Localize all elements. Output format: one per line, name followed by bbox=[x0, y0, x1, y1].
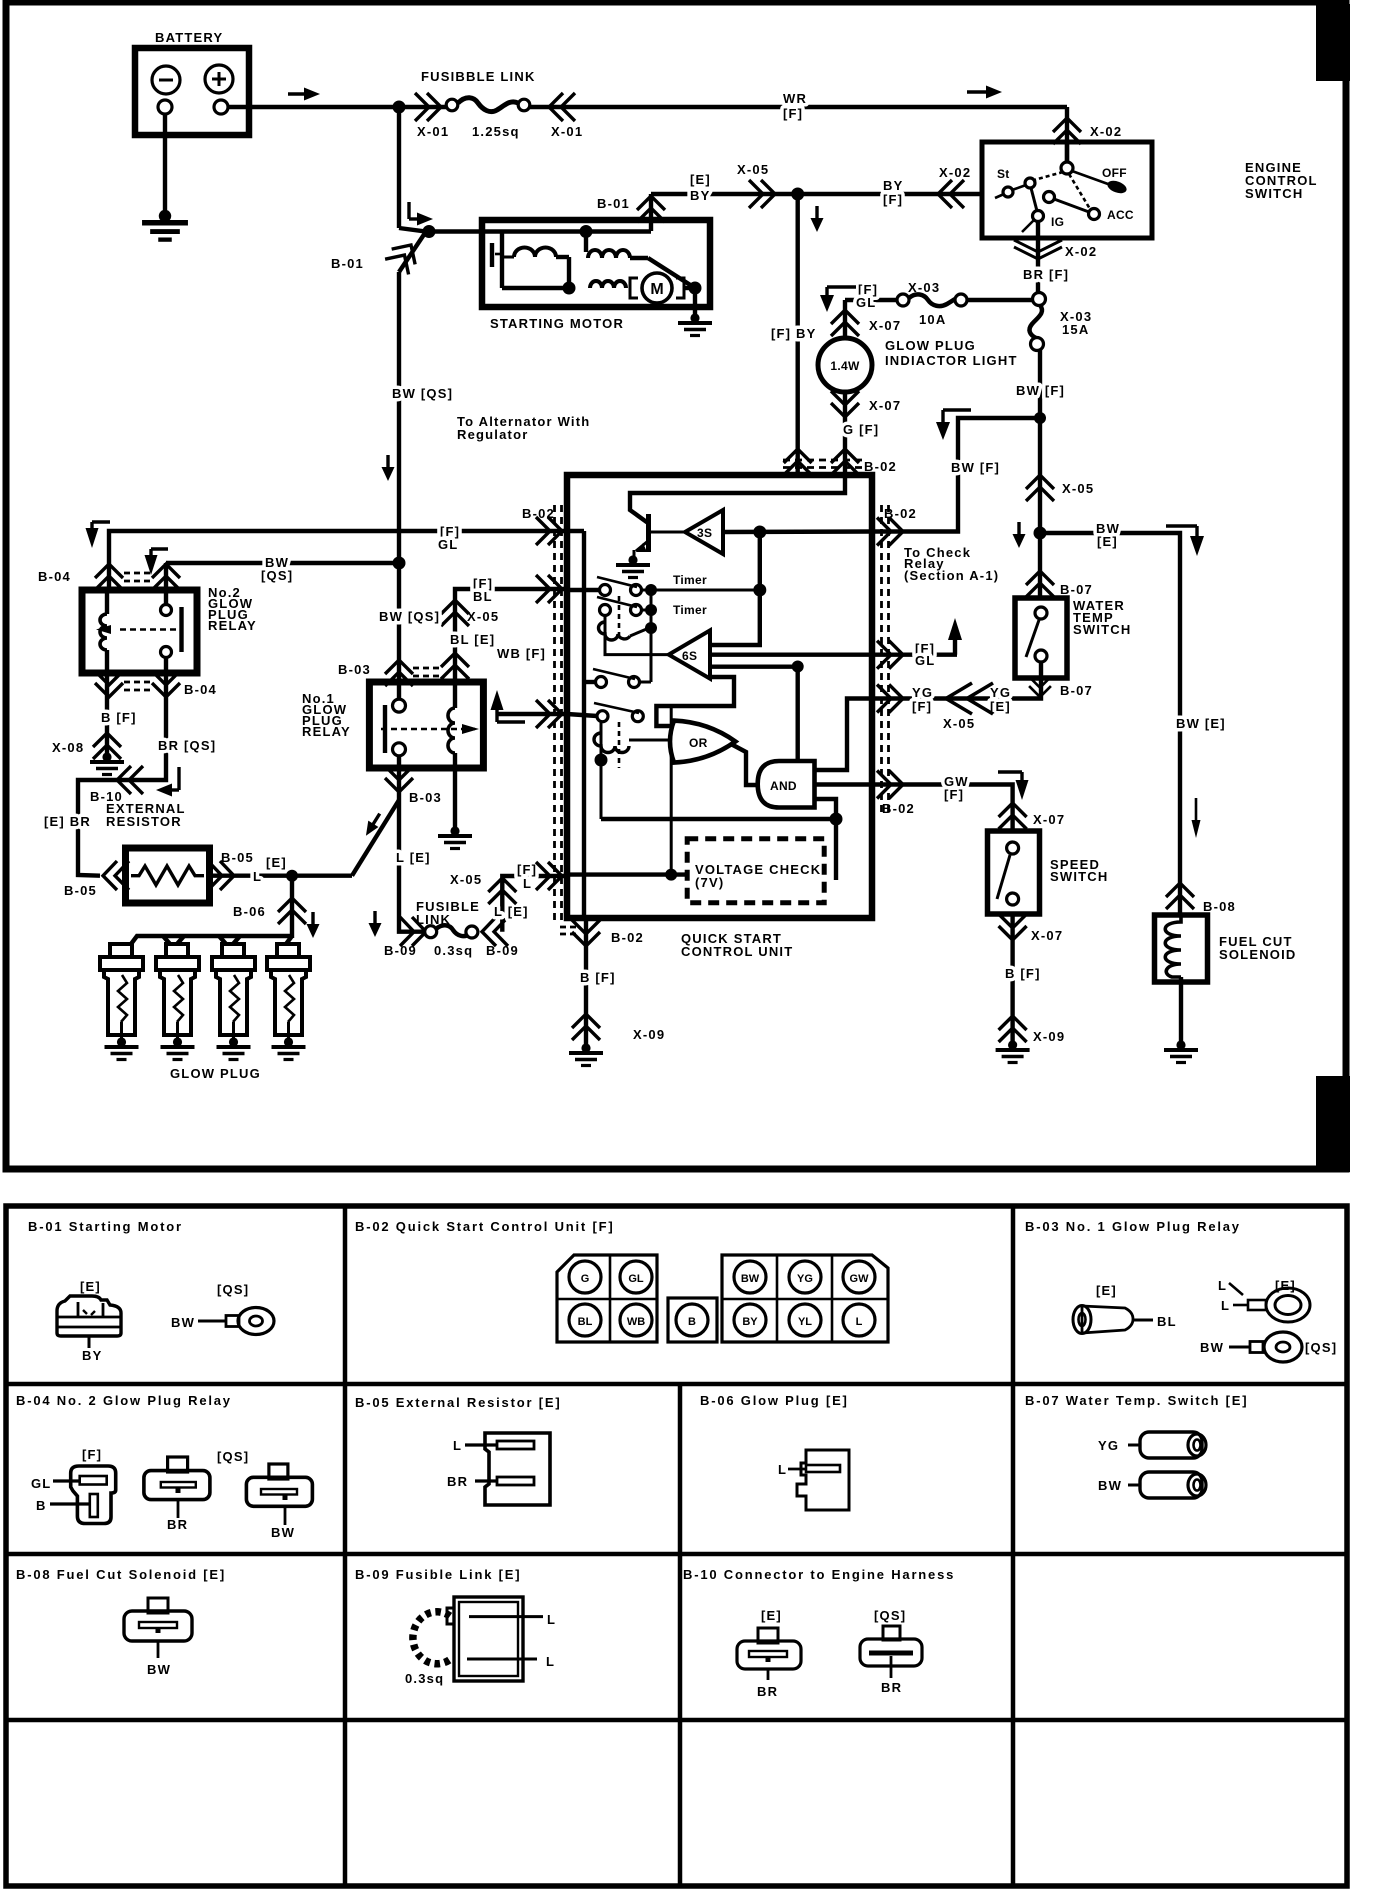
connector X-07 bbox=[831, 310, 859, 336]
svg-text:BW [F]: BW [F] bbox=[951, 460, 1000, 475]
svg-text:CONTROL UNIT: CONTROL UNIT bbox=[681, 944, 793, 959]
wire L [E] bbox=[209, 874, 352, 878]
wire 3S output bbox=[723, 529, 872, 534]
ground starting motor bbox=[678, 313, 712, 335]
svg-text:L [E]: L [E] bbox=[494, 904, 529, 919]
connector B-01 bbox=[385, 237, 423, 274]
wire inner left vertical bbox=[582, 531, 586, 918]
svg-text:SWITCH: SWITCH bbox=[1245, 186, 1303, 201]
B-10 connector [E] bbox=[737, 1608, 801, 1699]
svg-text:B-01: B-01 bbox=[597, 196, 630, 211]
connector X-05 bbox=[749, 180, 775, 208]
svg-text:G [F]: G [F] bbox=[843, 422, 879, 437]
svg-text:BR: BR bbox=[881, 1680, 902, 1695]
svg-text:L: L bbox=[546, 1654, 555, 1669]
B-07 terminal YG bbox=[1098, 1432, 1206, 1458]
fuse 10A bbox=[845, 280, 967, 327]
wire feedback vertical bbox=[712, 532, 760, 645]
svg-text:BW: BW bbox=[271, 1525, 295, 1540]
B-07 terminal BW bbox=[1098, 1472, 1206, 1498]
speed switch bbox=[988, 831, 1109, 914]
wire to ground bbox=[1179, 977, 1183, 1044]
svg-text:B-05 External Resistor [E]: B-05 External Resistor [E] bbox=[355, 1395, 561, 1410]
svg-text:B-04: B-04 bbox=[184, 682, 217, 697]
svg-text:L [E]: L [E] bbox=[396, 850, 431, 865]
wire GL output outside bbox=[872, 653, 957, 657]
flow arrow up bbox=[491, 690, 526, 722]
svg-text:B-03: B-03 bbox=[338, 662, 371, 677]
node BW [E] junction bbox=[1034, 527, 1047, 540]
contact OFF bbox=[1106, 178, 1129, 195]
svg-text:B-01 Starting Motor: B-01 Starting Motor bbox=[28, 1219, 183, 1234]
flow arrow left end bbox=[86, 522, 111, 548]
svg-text:L: L bbox=[547, 1612, 556, 1627]
fuel cut solenoid bbox=[1155, 915, 1297, 982]
svg-text:B-04 No. 2 Glow Plug Relay: B-04 No. 2 Glow Plug Relay bbox=[16, 1393, 232, 1408]
svg-text:B-07 Water Temp. Switch [E]: B-07 Water Temp. Switch [E] bbox=[1025, 1393, 1248, 1408]
wire junction down bbox=[1038, 533, 1042, 598]
contact St bbox=[1025, 178, 1035, 188]
svg-text:B [F]: B [F] bbox=[1005, 966, 1041, 981]
svg-text:X-05: X-05 bbox=[467, 609, 499, 624]
svg-text:B-02: B-02 bbox=[522, 506, 555, 521]
svg-text:B-01: B-01 bbox=[331, 256, 364, 271]
svg-text:X-02: X-02 bbox=[1065, 244, 1097, 259]
relay coil bbox=[453, 682, 457, 708]
svg-text:[E]: [E] bbox=[761, 1608, 782, 1623]
svg-text:BY: BY bbox=[690, 188, 710, 203]
wire B-01 up from motor bbox=[649, 194, 653, 231]
svg-text:YG: YG bbox=[1098, 1438, 1119, 1453]
svg-text:X-03: X-03 bbox=[908, 280, 940, 295]
wire WB input bbox=[497, 712, 567, 716]
svg-text:B-02: B-02 bbox=[611, 930, 644, 945]
svg-text:B-02: B-02 bbox=[882, 801, 915, 816]
svg-text:L: L bbox=[523, 876, 532, 891]
flow arrow right bbox=[967, 86, 1002, 99]
wire BY into AND bbox=[796, 667, 800, 760]
svg-text:G: G bbox=[581, 1273, 590, 1285]
svg-text:L: L bbox=[1221, 1298, 1230, 1313]
svg-text:X-07: X-07 bbox=[1033, 812, 1065, 827]
relay contact bbox=[393, 699, 406, 712]
svg-text:[F]: [F] bbox=[517, 862, 537, 877]
svg-text:GW: GW bbox=[850, 1273, 870, 1285]
battery minus terminal bbox=[152, 66, 180, 114]
svg-text:B: B bbox=[688, 1316, 696, 1328]
wire fuse to junction bbox=[1038, 350, 1042, 533]
node L junction bbox=[286, 870, 298, 882]
node battery junction bbox=[393, 101, 406, 114]
svg-text:[QS]: [QS] bbox=[217, 1449, 249, 1464]
flow arrow L-shape bbox=[409, 202, 433, 226]
wire BW QS horizontal bbox=[166, 561, 399, 565]
svg-text:0.3sq: 0.3sq bbox=[405, 1671, 444, 1686]
ground transistor bbox=[616, 555, 650, 577]
boundary right dashed bbox=[882, 505, 889, 812]
B-09 fusible link bbox=[405, 1597, 556, 1686]
svg-text:L: L bbox=[778, 1462, 787, 1477]
wire GL from unit to No.2 relay bbox=[109, 531, 567, 590]
B-08 connector bbox=[124, 1598, 192, 1677]
node bbox=[1034, 412, 1046, 424]
boundary top dashed bbox=[783, 460, 866, 468]
svg-text:B [F]: B [F] bbox=[580, 970, 616, 985]
svg-text:[F]: [F] bbox=[783, 106, 803, 121]
flow arrow at GL corner bbox=[820, 287, 856, 312]
wire down and left bbox=[872, 662, 1041, 699]
magnetic switch bbox=[492, 231, 502, 267]
svg-text:X-01: X-01 bbox=[551, 124, 583, 139]
svg-text:BR [F]: BR [F] bbox=[1023, 267, 1069, 282]
connector X-02 top bbox=[1053, 118, 1081, 144]
svg-text:RELAY: RELAY bbox=[208, 618, 257, 633]
svg-text:BL: BL bbox=[473, 589, 493, 604]
svg-text:BY: BY bbox=[883, 178, 903, 193]
svg-text:[E]: [E] bbox=[266, 855, 287, 870]
relay contact bbox=[161, 605, 172, 616]
wire L [E] down to fusible link bbox=[399, 802, 424, 932]
transistor Q1 bbox=[634, 514, 649, 558]
switch 3 bbox=[584, 669, 640, 688]
connector B-05 right bbox=[208, 861, 234, 890]
B-06 connector bbox=[778, 1450, 849, 1510]
wire B-01 diagonal bbox=[399, 232, 426, 273]
svg-text:OR: OR bbox=[689, 736, 708, 750]
connector X-01 left bbox=[415, 93, 441, 121]
pull-in coil bbox=[502, 256, 514, 259]
B-05 connector bbox=[447, 1433, 550, 1505]
svg-text:[F] BY: [F] BY bbox=[771, 326, 816, 341]
svg-text:10A: 10A bbox=[919, 312, 946, 327]
connector B-04 top bbox=[95, 564, 123, 590]
flow arrow down bbox=[811, 206, 824, 232]
field coil bbox=[584, 231, 588, 252]
svg-text:GL: GL bbox=[31, 1476, 51, 1491]
svg-text:[E]: [E] bbox=[690, 172, 711, 187]
svg-text:BR: BR bbox=[167, 1517, 188, 1532]
table grid bbox=[6, 1206, 1347, 1886]
svg-text:BL: BL bbox=[578, 1316, 593, 1328]
wire 6S input bbox=[605, 615, 669, 655]
svg-text:B-03: B-03 bbox=[409, 790, 442, 805]
svg-text:X-05: X-05 bbox=[1062, 481, 1094, 496]
svg-text:X-07: X-07 bbox=[869, 318, 901, 333]
svg-text:X-02: X-02 bbox=[1090, 124, 1122, 139]
svg-text:[QS]: [QS] bbox=[261, 568, 293, 583]
flow arrow right bbox=[288, 88, 320, 101]
wire WR [F] to engine control switch bbox=[530, 105, 1067, 109]
connector B-07 bbox=[1026, 571, 1054, 597]
flow arrow bbox=[307, 912, 320, 938]
wire BR [QS] bbox=[78, 739, 166, 876]
fusible link body bbox=[446, 98, 530, 112]
svg-text:B-09: B-09 bbox=[384, 943, 417, 958]
svg-text:FUSIBBLE LINK: FUSIBBLE LINK bbox=[421, 69, 536, 84]
connector X-07 below bbox=[831, 391, 859, 417]
motor M bbox=[630, 273, 684, 303]
wire GW from unit bbox=[872, 785, 1013, 832]
connector B-01 bbox=[637, 196, 665, 222]
svg-text:1.25sq: 1.25sq bbox=[472, 124, 520, 139]
gate OR bbox=[670, 721, 735, 763]
svg-text:L: L bbox=[1218, 1278, 1227, 1293]
relay coil K2 bbox=[600, 722, 603, 819]
wire GL output bbox=[710, 653, 872, 657]
wire OR output to AND bbox=[731, 744, 760, 785]
svg-text:[E]: [E] bbox=[1096, 1283, 1117, 1298]
wire BY [F] down to control unit bbox=[796, 194, 800, 475]
fuse 15A bbox=[1029, 305, 1092, 351]
wire 6S to BY node bbox=[710, 665, 798, 669]
svg-text:GLOW PLUG: GLOW PLUG bbox=[170, 1066, 261, 1081]
switch pivot bbox=[1061, 162, 1073, 174]
svg-text:YG: YG bbox=[797, 1273, 813, 1285]
wire B-06 down bbox=[290, 876, 294, 938]
wire YG output bbox=[816, 699, 872, 771]
node bbox=[393, 557, 406, 570]
svg-text:B-06: B-06 bbox=[233, 904, 266, 919]
svg-text:L: L bbox=[856, 1316, 863, 1328]
water temp switch bbox=[1015, 598, 1131, 678]
B-01 connector [E] bbox=[57, 1279, 121, 1363]
unit box bbox=[567, 475, 872, 959]
svg-text:WB [F]: WB [F] bbox=[497, 646, 546, 661]
svg-text:Timer: Timer bbox=[673, 573, 707, 587]
svg-text:SWITCH: SWITCH bbox=[1050, 869, 1108, 884]
svg-text:BW: BW bbox=[1200, 1340, 1224, 1355]
svg-text:BL: BL bbox=[1157, 1314, 1177, 1329]
wire G [F] down to unit bbox=[843, 392, 847, 475]
svg-text:X-02: X-02 bbox=[939, 165, 971, 180]
svg-text:IG: IG bbox=[1051, 215, 1064, 229]
svg-text:X-09: X-09 bbox=[1033, 1029, 1065, 1044]
svg-text:GLOW PLUG: GLOW PLUG bbox=[885, 338, 976, 353]
svg-text:[E]: [E] bbox=[80, 1279, 101, 1294]
svg-text:BW: BW bbox=[1098, 1478, 1122, 1493]
switch 4 bbox=[567, 703, 643, 722]
connector X-09 bbox=[999, 1016, 1027, 1042]
svg-text:[F]: [F] bbox=[82, 1447, 102, 1462]
wire up with arrow bbox=[948, 618, 962, 655]
wire BL [E] from unit bbox=[455, 589, 567, 682]
svg-text:BY: BY bbox=[82, 1348, 102, 1363]
wire G from top bbox=[630, 475, 845, 523]
wire down to light bbox=[843, 300, 847, 340]
svg-text:RELAY: RELAY bbox=[302, 724, 351, 739]
svg-text:BL [E]: BL [E] bbox=[450, 632, 495, 647]
svg-text:St: St bbox=[997, 167, 1010, 181]
timer switch 2 bbox=[597, 597, 707, 617]
connector chevrons left edge bbox=[536, 517, 562, 545]
svg-text:[QS]: [QS] bbox=[217, 1282, 249, 1297]
connector B-02 bottom bbox=[572, 920, 600, 946]
wire 6S down to OR bbox=[656, 677, 734, 726]
wire pivot up bbox=[1065, 142, 1069, 163]
armature bbox=[500, 262, 504, 288]
flow arrow B-10 bbox=[156, 767, 179, 797]
connector X-09 bbox=[572, 1014, 600, 1040]
svg-text:B-08 Fuel Cut Solenoid [E]: B-08 Fuel Cut Solenoid [E] bbox=[16, 1567, 226, 1582]
svg-text:(7V): (7V) bbox=[695, 875, 724, 890]
svg-text:INDIACTOR LIGHT: INDIACTOR LIGHT bbox=[885, 353, 1018, 368]
connector X-05 bbox=[441, 600, 469, 626]
svg-text:(Section A-1): (Section A-1) bbox=[904, 568, 999, 583]
B-04 connector BR bbox=[144, 1457, 210, 1532]
svg-text:B-02: B-02 bbox=[864, 459, 897, 474]
svg-text:X-01: X-01 bbox=[417, 124, 449, 139]
wire L [E] up to unit bbox=[502, 876, 567, 932]
svg-text:[E]: [E] bbox=[990, 699, 1011, 714]
svg-text:B-04: B-04 bbox=[38, 569, 71, 584]
svg-text:[QS]: [QS] bbox=[1305, 1340, 1337, 1355]
connector chevrons top bbox=[784, 449, 812, 475]
svg-text:BATTERY: BATTERY bbox=[155, 30, 223, 45]
wire long horizontal bbox=[601, 817, 836, 821]
svg-text:ACC: ACC bbox=[1107, 208, 1134, 222]
svg-text:X-05: X-05 bbox=[450, 872, 482, 887]
svg-text:AND: AND bbox=[770, 779, 797, 793]
contact ACC bbox=[1089, 209, 1100, 220]
svg-text:BW: BW bbox=[147, 1662, 171, 1677]
svg-text:Timer: Timer bbox=[673, 603, 707, 617]
wire to fusible link bbox=[399, 105, 447, 109]
svg-text:B-06 Glow Plug [E]: B-06 Glow Plug [E] bbox=[700, 1393, 849, 1408]
wire BW [QS] down bbox=[397, 272, 401, 563]
amp 3S bbox=[685, 510, 723, 554]
wire fuse to BR junction bbox=[967, 298, 1033, 302]
wire bend into starting motor bbox=[399, 228, 651, 232]
svg-text:B-03 No. 1 Glow Plug Relay: B-03 No. 1 Glow Plug Relay bbox=[1025, 1219, 1241, 1234]
connector X-02 bottom bbox=[1014, 240, 1062, 259]
B-04 connector [F] bbox=[31, 1447, 116, 1524]
node bbox=[423, 225, 436, 238]
wire down bbox=[1010, 914, 1014, 1045]
connector X-07 bbox=[999, 803, 1027, 829]
svg-text:BW [E]: BW [E] bbox=[1176, 716, 1226, 731]
ground No.1 relay bbox=[438, 826, 472, 848]
relay coil K1 bbox=[604, 615, 607, 622]
svg-text:B-05: B-05 bbox=[221, 850, 254, 865]
timer switch 1 bbox=[567, 573, 707, 596]
wire AND output GW bbox=[815, 782, 873, 786]
connector B-04 bottom bbox=[95, 671, 123, 697]
svg-text:B-05: B-05 bbox=[64, 883, 97, 898]
flow arrow corner bbox=[998, 772, 1029, 800]
svg-text:[E] BR: [E] BR bbox=[44, 814, 91, 829]
wire diagonal to B-03 bbox=[352, 800, 399, 876]
svg-text:15A: 15A bbox=[1062, 322, 1089, 337]
connector chevrons right edge bbox=[877, 518, 903, 546]
wire B [F] to ground bbox=[105, 673, 109, 755]
B-02 pin block right bbox=[722, 1255, 888, 1342]
svg-text:B-02: B-02 bbox=[884, 506, 917, 521]
relay coil bbox=[105, 590, 109, 614]
wire IG down through box bbox=[1036, 221, 1040, 292]
svg-text:BW: BW bbox=[171, 1315, 195, 1330]
svg-text:B: B bbox=[36, 1498, 47, 1513]
svg-text:GL: GL bbox=[628, 1273, 644, 1285]
battery plus terminal bbox=[205, 65, 233, 114]
wire from battery column into relay bbox=[397, 563, 401, 700]
ground B output bbox=[569, 1043, 603, 1065]
svg-text:SOLENOID: SOLENOID bbox=[1219, 947, 1297, 962]
svg-text:[QS]: [QS] bbox=[874, 1608, 906, 1623]
svg-text:[E]: [E] bbox=[1097, 534, 1118, 549]
wire BW [E] to fuel cut bbox=[1040, 533, 1180, 913]
boundary left dashed bbox=[555, 505, 562, 920]
svg-text:3S: 3S bbox=[697, 526, 712, 540]
amp 6S bbox=[669, 630, 710, 678]
svg-text:RESISTOR: RESISTOR bbox=[106, 814, 182, 829]
svg-text:BW [F]: BW [F] bbox=[1016, 383, 1065, 398]
svg-text:YG: YG bbox=[912, 685, 933, 700]
svg-text:0.3sq: 0.3sq bbox=[434, 943, 473, 958]
wire battery minus to ground bbox=[163, 114, 167, 215]
svg-text:OFF: OFF bbox=[1102, 166, 1127, 180]
voltage check box bbox=[687, 839, 824, 903]
svg-text:B-08: B-08 bbox=[1203, 899, 1236, 914]
svg-text:GL: GL bbox=[856, 295, 876, 310]
node BY junction bbox=[791, 188, 804, 201]
svg-text:L: L bbox=[253, 869, 262, 884]
svg-text:YG: YG bbox=[990, 685, 1011, 700]
lamp bbox=[818, 338, 1018, 392]
connector X-08 bbox=[93, 733, 121, 759]
ground speed switch bbox=[996, 1040, 1030, 1062]
B-02 pin block left bbox=[557, 1255, 657, 1342]
connector B-10 bbox=[117, 766, 143, 794]
corner block bottom-right bbox=[1316, 1076, 1350, 1172]
svg-text:GL: GL bbox=[438, 537, 458, 552]
ground fuel cut bbox=[1164, 1040, 1198, 1062]
svg-text:B-09 Fusible Link [E]: B-09 Fusible Link [E] bbox=[355, 1567, 521, 1582]
svg-text:B-10 Connector to Engine Harn: B-10 Connector to Engine Harness bbox=[683, 1567, 955, 1582]
svg-text:BW [QS]: BW [QS] bbox=[379, 609, 440, 624]
svg-text:X-08: X-08 bbox=[52, 740, 84, 755]
flow arrow down bbox=[382, 455, 395, 481]
connector X-05 bbox=[1026, 475, 1054, 501]
wire AND lower to voltage check bbox=[815, 799, 837, 880]
B-04 connector BW bbox=[217, 1449, 312, 1540]
wire to check relay bbox=[872, 418, 1040, 532]
connector X-01 right bbox=[549, 93, 575, 121]
wire battery plus to junction bbox=[228, 105, 399, 109]
No.1 glow plug relay box bbox=[302, 682, 483, 768]
svg-text:B-07: B-07 bbox=[1060, 683, 1093, 698]
connector X-07 below bbox=[999, 914, 1027, 940]
svg-text:X-09: X-09 bbox=[633, 1027, 665, 1042]
B-02 pin cell B bbox=[668, 1298, 717, 1342]
external resistor box bbox=[126, 848, 210, 903]
svg-text:YL: YL bbox=[798, 1316, 812, 1328]
ground battery bbox=[142, 210, 188, 240]
connector B-07 below bbox=[1029, 677, 1051, 697]
svg-text:GL: GL bbox=[915, 653, 935, 668]
svg-text:X-07: X-07 bbox=[869, 398, 901, 413]
No.2 glow plug relay box bbox=[82, 585, 257, 673]
svg-text:1.4W: 1.4W bbox=[830, 359, 860, 373]
svg-text:B [F]: B [F] bbox=[101, 710, 137, 725]
fusible link 0.3sq bbox=[384, 899, 519, 958]
svg-text:SWITCH: SWITCH bbox=[1073, 622, 1131, 637]
corner block top-right bbox=[1316, 4, 1350, 81]
svg-text:B-07: B-07 bbox=[1060, 582, 1093, 597]
B-10 connector [QS] bbox=[860, 1608, 922, 1695]
glow plug 1 bbox=[100, 944, 143, 1060]
svg-text:BR: BR bbox=[447, 1474, 468, 1489]
switch arms bbox=[1034, 172, 1063, 180]
